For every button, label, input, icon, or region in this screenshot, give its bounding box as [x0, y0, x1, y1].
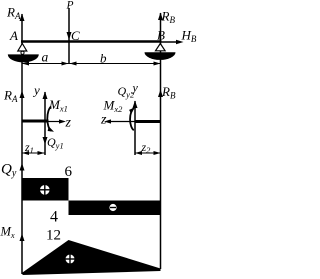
- svg-text:z: z: [100, 113, 107, 128]
- svg-text:A: A: [9, 28, 18, 43]
- svg-text:P: P: [66, 0, 74, 12]
- svg-text:4: 4: [50, 209, 58, 226]
- moment arc M_x2: [130, 108, 134, 130]
- left cut bar: [22, 120, 49, 123]
- arrowhead Q_y2 up: [133, 101, 138, 109]
- y axis / Q_y2 line: [134, 101, 136, 155]
- arrowhead M_x axis: [20, 234, 25, 242]
- arrowhead Q_y axis: [20, 163, 25, 171]
- z axis (left fbd): [49, 121, 63, 123]
- right cut bar: [135, 120, 161, 123]
- arrowhead reaction R_B (top): [158, 13, 163, 21]
- positive shear rect: [23, 178, 69, 201]
- plus sign in circle (shear): [40, 185, 50, 195]
- arrowhead R_B (fbd): [158, 90, 163, 98]
- dimension z1: [22, 152, 45, 154]
- y axis / Q_y1 line: [44, 92, 46, 155]
- plus sign in circle (moment): [66, 255, 75, 264]
- construction line B (vertical): [160, 13, 162, 269]
- support B: pin triangle: [156, 44, 166, 51]
- beam AB: [21, 40, 162, 43]
- support B: ground half-ellipse: [145, 52, 176, 60]
- force H_B arrow: [162, 41, 180, 43]
- dimension z2: [135, 152, 161, 154]
- svg-text:C: C: [71, 28, 80, 43]
- z axis (right fbd): [108, 121, 135, 123]
- load line P / construction line C: [68, 8, 70, 64]
- support A: ground half-ellipse: [8, 54, 39, 62]
- moment triangle: [23, 240, 161, 275]
- dimension line a-b: [22, 63, 161, 65]
- svg-text:y: y: [132, 81, 139, 95]
- dim arrow left at A: [22, 62, 29, 66]
- minus sign in circle (shear): [109, 204, 116, 211]
- svg-text:y: y: [32, 83, 40, 98]
- moment arc M_x1: [47, 107, 51, 131]
- svg-text:B: B: [157, 28, 165, 43]
- svg-text:6: 6: [65, 164, 73, 180]
- dim arrows at C: [62, 62, 69, 66]
- svg-text:b: b: [100, 51, 107, 66]
- svg-text:12: 12: [46, 228, 61, 244]
- arrowhead reaction R_A (top): [20, 14, 25, 22]
- svg-text:z: z: [65, 116, 72, 131]
- svg-text:a: a: [42, 50, 49, 65]
- support A: roller circle: [21, 51, 24, 54]
- arrowhead R_A (fbd): [20, 91, 25, 99]
- negative shear rect: [69, 201, 161, 216]
- arrowhead y axis up: [43, 92, 48, 100]
- support A: roller triangle: [18, 44, 27, 52]
- arrowhead Q_y1 down: [43, 137, 48, 145]
- arrowhead load P: [67, 32, 72, 40]
- dim arrow right at B: [154, 62, 161, 66]
- construction line A (vertical through whole figure): [21, 14, 23, 274]
